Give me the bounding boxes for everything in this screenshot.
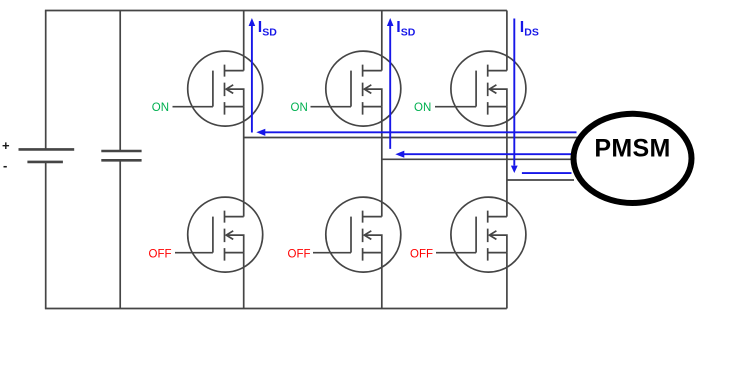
wire battery bottom lead	[45, 162, 47, 309]
svg-text:ON: ON	[291, 102, 308, 114]
motor PMSM	[574, 114, 692, 203]
wire capacitor top lead	[119, 11, 121, 152]
wire bottom DC bus rail	[45, 308, 507, 310]
capacitor C1	[101, 151, 141, 160]
wire top DC bus rail	[45, 10, 507, 12]
svg-text:PMSM: PMSM	[594, 135, 670, 163]
svg-text:ISD: ISD	[396, 19, 415, 39]
transistor Q6 (bottom, leg3)	[451, 197, 526, 272]
transistor Q2 (top, leg2)	[326, 51, 401, 126]
svg-text:OFF: OFF	[288, 249, 311, 261]
wire Q6 gate lead	[436, 252, 476, 254]
wire leg3 bottom (Q6 source to rail)	[506, 253, 508, 309]
transistor Q1 (top, leg1)	[188, 51, 263, 126]
svg-text:ON: ON	[414, 102, 431, 114]
svg-text:OFF: OFF	[410, 249, 433, 261]
transistor Q3 (top, leg3)	[451, 51, 526, 126]
current arrow phase B (leftward to leg2)	[395, 151, 571, 158]
svg-text:ON: ON	[152, 102, 169, 114]
wire battery top lead	[45, 11, 47, 150]
wire leg2 top (rail to Q2 drain)	[381, 11, 383, 71]
svg-text:-: -	[3, 158, 7, 173]
transistor Q5 (bottom, leg2)	[326, 197, 401, 272]
wire phase A to PMSM	[244, 137, 578, 139]
svg-text:ISD: ISD	[258, 19, 277, 39]
wire capacitor bottom lead	[119, 160, 121, 308]
wire leg1 top (rail to Q1 drain)	[243, 11, 245, 71]
current arrow phase A (leftward to leg1)	[256, 129, 576, 136]
wire Q2 gate lead	[311, 106, 352, 108]
wire leg1 bottom (Q4 source to rail)	[243, 253, 245, 309]
current arrow I_SD leg2 (upward)	[387, 18, 394, 149]
current arrow phase C (rightward from leg3)	[522, 172, 572, 174]
wire Q3 gate lead	[435, 106, 476, 108]
wire leg1 middle (Q1 source to Q4 drain)	[243, 107, 245, 217]
wire phase B to PMSM	[382, 158, 573, 160]
wire leg3 middle (Q3 source to Q6 drain)	[506, 107, 508, 217]
wire Q1 gate lead	[173, 106, 213, 108]
wire leg3 top (rail to Q3 drain)	[506, 11, 508, 71]
transistor Q4 (bottom, leg1)	[188, 197, 263, 272]
wire leg2 bottom (Q5 source to rail)	[381, 253, 383, 309]
wire leg2 middle (Q2 source to Q5 drain)	[381, 107, 383, 217]
wire phase C to PMSM	[507, 179, 574, 181]
svg-text:IDS: IDS	[520, 19, 539, 39]
svg-text:OFF: OFF	[149, 249, 172, 261]
current arrow I_SD leg1 (upward)	[249, 18, 256, 133]
wire Q4 gate lead	[175, 252, 213, 254]
battery V1	[19, 149, 75, 162]
svg-text:+: +	[2, 138, 10, 153]
current arrow I_DS leg3 (downward)	[511, 19, 518, 174]
wire Q5 gate lead	[313, 252, 351, 254]
